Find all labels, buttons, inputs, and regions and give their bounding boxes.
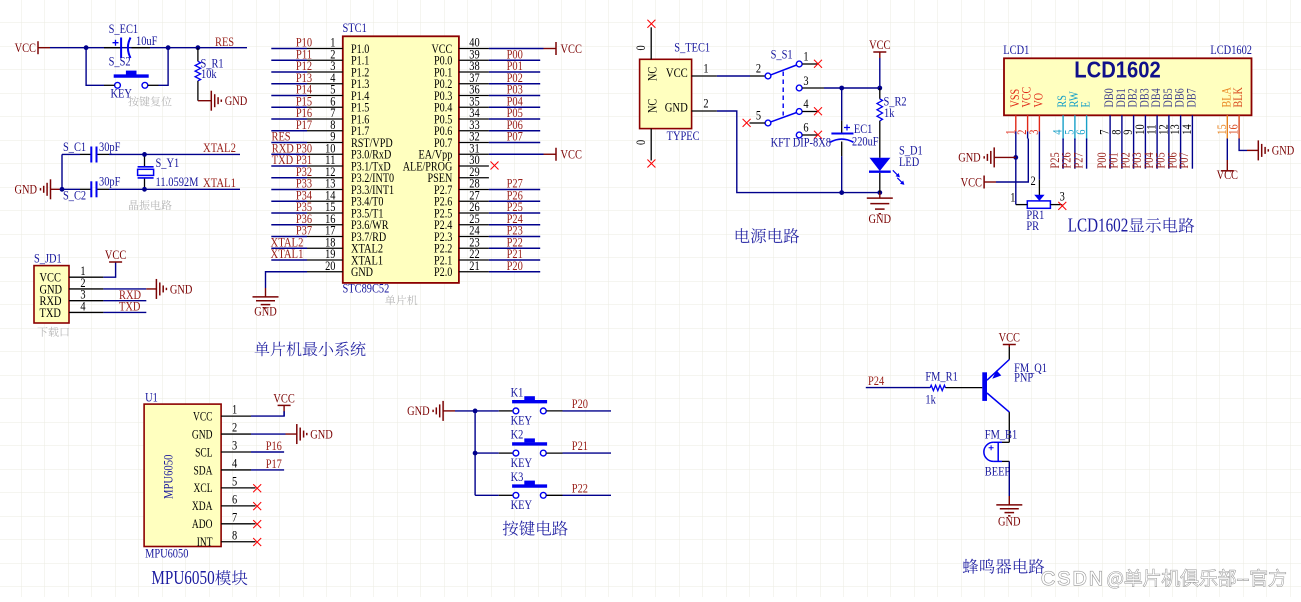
wire pin 7 [271, 118, 307, 120]
wire pin 1 [271, 48, 307, 50]
svg-text:GND: GND [1272, 143, 1295, 158]
STC1 pin 28 P2.7 [459, 189, 489, 191]
svg-text:GND: GND [665, 100, 688, 115]
STC1 pin 18 XTAL2 [307, 247, 343, 249]
wire pin 2 [271, 59, 307, 61]
wire pin 15 [271, 212, 307, 214]
svg-text:K1: K1 [511, 384, 524, 399]
STC1 pin 20 GND [307, 271, 343, 273]
wire P22 [563, 494, 612, 496]
wire buzzer to gnd [1008, 461, 1010, 496]
wire resistor to base [946, 387, 983, 389]
svg-text:5: 5 [232, 473, 237, 488]
S_S1 pin 6 [796, 132, 802, 138]
wire VCC col to port [996, 139, 1028, 183]
power port VCC (reset circuit) [37, 41, 39, 54]
ground GND (download) [156, 279, 166, 299]
key rail vertical [474, 411, 476, 495]
STC1 pin 38 P0.1 [459, 71, 489, 73]
wire pin 12 [271, 177, 307, 179]
svg-text:MPU6050: MPU6050 [151, 567, 214, 589]
svg-text:GND: GND [998, 513, 1021, 528]
wire pin 25 [489, 224, 540, 226]
svg-text:K3: K3 [511, 469, 524, 484]
wire pin 27 [489, 200, 540, 202]
STC1 pin 26 P2.5 [459, 212, 489, 214]
junction [877, 86, 882, 91]
LCD pin 5 stub [1074, 115, 1076, 140]
wire TEC1 pin1 to switch pin2 [717, 75, 750, 77]
wire bottom cap row [62, 188, 80, 190]
svg-text:STC89C52: STC89C52 [343, 281, 390, 296]
svg-text:30pF: 30pF [99, 139, 120, 154]
wire pin 18 [271, 247, 307, 249]
junction [166, 45, 171, 50]
LCD pin 7 stub [1109, 115, 1111, 138]
svg-text:NC: NC [645, 67, 660, 81]
junction [839, 190, 844, 195]
power port VCC (pin 31) [544, 153, 557, 155]
wire pin 34 [489, 118, 540, 120]
svg-text:21: 21 [469, 258, 479, 273]
svg-text:30pF: 30pF [99, 174, 120, 189]
svg-text:VCC: VCC [961, 174, 982, 189]
svg-text:KEY: KEY [511, 413, 533, 428]
svg-text:P21: P21 [572, 438, 588, 453]
S_S1 dashed gang link [782, 72, 784, 116]
LCD pin 11 stub [1156, 115, 1158, 138]
svg-text:TXD: TXD [40, 305, 61, 320]
svg-text:P20: P20 [572, 396, 588, 411]
power port VCC (MPU) [283, 405, 285, 411]
svg-text:4: 4 [80, 298, 86, 313]
svg-text:GND: GND [310, 426, 333, 441]
PR1 pin 3 [1050, 204, 1062, 206]
capacitor S_C2 30pF [80, 188, 91, 190]
capacitor S_C1 30pF [80, 153, 91, 155]
gray label 下载口 [37, 327, 68, 337]
svg-text:6: 6 [1073, 129, 1088, 135]
STC1 pin 27 P2.6 [459, 200, 489, 202]
svg-text:P07: P07 [1176, 152, 1191, 169]
svg-text:MPU6050: MPU6050 [145, 546, 188, 561]
LCD pin 12 stub [1168, 115, 1170, 138]
no connect X (U1 pin 5) [251, 487, 256, 489]
wire pin 5 [271, 95, 307, 97]
capacitor EC1 220uF [841, 88, 843, 121]
svg-text:MPU6050: MPU6050 [161, 455, 176, 499]
no connect X pin 30 [491, 162, 499, 170]
wire switch pin3 to vcc rail [824, 87, 880, 89]
STC1 pin 30 ALE/PROG [459, 165, 489, 167]
svg-text:1: 1 [1010, 190, 1015, 205]
LCD pin 4 stub [1062, 115, 1064, 140]
junction [142, 152, 147, 157]
svg-text:5: 5 [756, 107, 761, 122]
switch K2 KEY [475, 452, 499, 454]
svg-text:E: E [1078, 101, 1093, 107]
wire pin 16 [271, 224, 307, 226]
S_TEC1 pin NC top [650, 27, 652, 59]
svg-text:11.0592M: 11.0592M [156, 174, 199, 189]
PR1 pin 1 [1016, 204, 1028, 206]
svg-text:LCD1: LCD1 [1003, 42, 1029, 57]
junction [84, 45, 89, 50]
svg-text:XDA: XDA [192, 498, 213, 513]
wire U1 pin2 to GND [251, 433, 286, 435]
wire pin 22 [489, 259, 540, 261]
svg-text:10k: 10k [201, 66, 217, 81]
svg-text:1: 1 [803, 48, 808, 63]
junction [473, 409, 478, 414]
ground GND (LCD right) [1258, 140, 1268, 160]
svg-text:0: 0 [633, 140, 648, 145]
STC1 pin 17 P3.7/RD [307, 236, 343, 238]
svg-text:LCD1602: LCD1602 [1068, 215, 1129, 237]
capacitor S_EC1 plates [120, 38, 122, 59]
ground GND (MPU) [297, 424, 307, 444]
svg-text:2: 2 [1031, 173, 1036, 188]
power port VCC (LCD right, down) [1221, 170, 1234, 172]
svg-text:S_S2: S_S2 [109, 54, 131, 69]
LCD pin 16 stub [1238, 115, 1240, 139]
wire gnd to caps [51, 188, 63, 190]
S_S1 pin 3 [796, 85, 802, 91]
switch K1 KEY [475, 410, 499, 412]
LCD pin 3 stub [1038, 115, 1040, 131]
svg-text:BEEP: BEEP [985, 464, 1010, 479]
power port VCC (power circuit) [879, 52, 881, 58]
ground GND (power circuit) [867, 198, 893, 214]
wire pin 3 [271, 71, 307, 73]
STC1 pin 23 P2.2 [459, 247, 489, 249]
junction [142, 187, 147, 192]
svg-text:VCC: VCC [273, 391, 294, 406]
svg-text:P17: P17 [266, 456, 283, 471]
wire pin 35 [489, 106, 540, 108]
svg-text:S_Y1: S_Y1 [156, 155, 180, 170]
wire pin 10 [271, 153, 307, 155]
ground GND (LCD left) [994, 156, 1016, 158]
wire right branch down to key [159, 48, 169, 86]
STC1 pin 25 P2.4 [459, 224, 489, 226]
wire VO col to PR1 wiper [1038, 139, 1040, 180]
S_TEC1 pin 2 [692, 110, 717, 112]
svg-text:KEY: KEY [111, 85, 133, 100]
wire pin2 to GND [103, 288, 146, 290]
STC1 pin 29 PSEN [459, 177, 489, 179]
S_TEC1 pin 1 [692, 75, 717, 77]
svg-text:6: 6 [803, 119, 809, 134]
STC1 pin 35 P0.4 [459, 106, 489, 108]
module U1 MPU6050 body [144, 404, 221, 546]
no connect X (U1 pin 8) [251, 541, 256, 543]
svg-text:14: 14 [1179, 124, 1194, 135]
wire pin 8 [271, 130, 307, 132]
wire U1 pin4 [251, 469, 284, 471]
STC1 pin 22 P2.1 [459, 259, 489, 261]
svg-text:VCC: VCC [561, 147, 582, 162]
svg-text:S_TEC1: S_TEC1 [674, 40, 710, 55]
svg-text:TXD: TXD [272, 152, 293, 167]
svg-text:VCC: VCC [105, 247, 126, 262]
LED S_D1 [879, 121, 881, 158]
STC1 pin 32 P0.7 [459, 142, 489, 144]
connector S_JD1 [34, 266, 69, 323]
svg-text:LCD1602: LCD1602 [1210, 42, 1252, 57]
wire top cap row [62, 153, 80, 155]
svg-text:TYPEC: TYPEC [667, 128, 700, 143]
gray label 按键复位 [128, 96, 171, 106]
wire pin 14 [271, 200, 307, 202]
S_S1 pin 1 [796, 61, 802, 67]
svg-text:GND: GND [869, 211, 892, 226]
title 蜂鸣器电路 [963, 559, 1044, 574]
no connect X (S_S1 pin5) [743, 119, 751, 127]
svg-text:KEY: KEY [511, 497, 533, 512]
STC1 pin 15 P3.5/T1 [307, 212, 343, 214]
svg-text:U1: U1 [145, 390, 158, 405]
svg-text:3: 3 [1060, 189, 1065, 204]
potentiometer PR1 [1027, 201, 1050, 208]
resistor S_R1 [197, 48, 199, 62]
wire pin 19 [271, 259, 307, 261]
LCD pin 15 stub [1226, 115, 1228, 139]
STC1 pin 21 P2.0 [459, 271, 489, 273]
power port VCC (LCD left) [983, 176, 985, 189]
power port VCC (download) [115, 261, 117, 263]
wire TEC1 pin2 to gnd rail [717, 111, 880, 193]
no connect X (U1 pin 6) [251, 505, 256, 507]
wire BLA col to VCC [1226, 139, 1228, 161]
LCD pin 2 stub [1027, 115, 1029, 131]
wire pin 21 [489, 271, 540, 273]
STC1 pin 6 P1.5 [307, 106, 343, 108]
svg-text:GND: GND [958, 150, 981, 165]
svg-text:NC: NC [645, 99, 660, 113]
no connect X (S_S1 pin4) [814, 107, 822, 115]
svg-text:GND: GND [407, 403, 430, 418]
LCD pin 8 stub [1121, 115, 1123, 138]
wire P20 [563, 410, 612, 412]
power port VCC (pin 40) [544, 48, 557, 50]
junction [839, 86, 844, 91]
svg-text:VCC: VCC [1217, 167, 1238, 182]
wire U1 pin1 to VCC [251, 411, 284, 416]
MCU U=STC1 body [343, 36, 459, 283]
svg-text:P07: P07 [507, 129, 524, 144]
capacitor S_EC1 10uF (pins) [104, 47, 121, 49]
STC1 pin 13 P3.3/INT1 [307, 189, 343, 191]
STC1 pin 7 P1.6 [307, 118, 343, 120]
wire pin 23 [489, 247, 540, 249]
wire P24 to resistor [866, 387, 930, 389]
S_S1 pin 5 [765, 120, 771, 126]
svg-text:220uF: 220uF [852, 133, 879, 148]
buzzer FM_B1 BEEP [984, 442, 998, 461]
gray label 单片机 [385, 295, 417, 305]
STC1 pin 2 P1.1 [307, 59, 343, 61]
ground GND (reset) [211, 91, 221, 111]
wire gnd to key rail [455, 410, 475, 412]
no connect X (PR1 pin3) [1058, 202, 1066, 210]
svg-text:S_C1: S_C1 [63, 139, 86, 154]
svg-text:INT: INT [197, 534, 213, 549]
STC1 pin 36 P0.3 [459, 95, 489, 97]
switch K3 KEY [475, 494, 499, 496]
svg-text:S_EC1: S_EC1 [109, 21, 139, 36]
resistor FM_R1 1k [930, 385, 945, 390]
svg-text:GND: GND [254, 303, 277, 318]
svg-text:BLK: BLK [1230, 87, 1245, 108]
connector S_TEC1 TYPEC body [640, 59, 692, 128]
junction [196, 45, 201, 50]
svg-text:P27: P27 [1070, 152, 1085, 169]
STC1 pin 19 XTAL1 [307, 259, 343, 261]
svg-text:XTAL1: XTAL1 [271, 246, 304, 261]
svg-text:VCC: VCC [666, 65, 688, 80]
svg-text:KFT DIP-8X8: KFT DIP-8X8 [771, 135, 831, 150]
svg-text:LCD1602: LCD1602 [1074, 57, 1161, 83]
STC1 pin 34 P0.5 [459, 118, 489, 120]
svg-text:S_JD1: S_JD1 [34, 251, 62, 266]
svg-text:ADO: ADO [192, 516, 213, 531]
PNP arrow [992, 370, 1001, 379]
svg-text:3: 3 [232, 438, 237, 453]
STC1 pin 3 P1.2 [307, 71, 343, 73]
power port VCC (buzzer) [1008, 345, 1010, 348]
S_S1 pin 2 [750, 75, 765, 77]
svg-text:GND: GND [170, 281, 193, 296]
svg-text:20: 20 [325, 258, 335, 273]
svg-text:3: 3 [1026, 130, 1041, 135]
svg-text:8: 8 [232, 527, 237, 542]
wire pin 9 [271, 142, 307, 144]
svg-text:P17: P17 [296, 117, 313, 132]
ground GND (MCU) [253, 297, 279, 308]
svg-text:1: 1 [232, 402, 237, 417]
wire VCC to RES net [50, 47, 247, 49]
wire pin 20 GND [266, 272, 308, 288]
wire pin 31 to VCC [489, 153, 544, 155]
STC1 pin 39 P0.0 [459, 59, 489, 61]
svg-text:KEY: KEY [511, 455, 533, 470]
svg-text:FM_B1: FM_B1 [985, 427, 1017, 442]
svg-text:DB7: DB7 [1183, 88, 1198, 108]
wire pin 37 [489, 83, 540, 85]
svg-text:XTAL1: XTAL1 [203, 175, 236, 190]
svg-text:SCL: SCL [195, 444, 212, 459]
svg-text:P2.0: P2.0 [434, 264, 452, 279]
wire collector down [1008, 412, 1010, 442]
junction [877, 190, 882, 195]
wire gnd stem [879, 193, 881, 199]
LCD pin 9 stub [1133, 115, 1135, 138]
svg-text:GND: GND [15, 182, 38, 197]
wire pin1 to VCC [103, 262, 115, 277]
ground GND (buzzer) [996, 505, 1022, 516]
title 按键电路 [503, 521, 568, 536]
svg-text:S_S1: S_S1 [771, 47, 793, 62]
LCD pin 10 stub [1144, 115, 1146, 138]
wire pin 26 [489, 212, 540, 214]
title 单片机最小系统 [255, 342, 366, 357]
LCD pin 14 stub [1191, 115, 1193, 138]
PR1 wiper arrow [1034, 195, 1044, 201]
STC1 pin 24 P2.3 [459, 236, 489, 238]
svg-text:10uF: 10uF [136, 33, 157, 48]
svg-text:GND: GND [192, 426, 213, 441]
svg-text:2: 2 [703, 96, 708, 111]
S_S1 lever 2-1 [771, 65, 797, 75]
svg-text:LED: LED [899, 154, 919, 169]
wire left branch down to key [86, 48, 104, 86]
svg-text:7: 7 [232, 509, 238, 524]
switch S_S2 KEY [114, 74, 149, 77]
svg-text:PR: PR [1026, 218, 1039, 233]
svg-text:VCC: VCC [869, 37, 890, 52]
junction [473, 451, 478, 456]
STC1 pin 40 VCC [459, 48, 489, 50]
wire BLK col to GND [1239, 139, 1247, 151]
svg-text:VO: VO [1030, 93, 1045, 108]
svg-text:P20: P20 [507, 258, 523, 273]
svg-text:RES: RES [215, 34, 234, 49]
STC1 pin 1 P1.0 [307, 48, 343, 50]
svg-text:GND: GND [225, 93, 248, 108]
svg-text:XCL: XCL [194, 480, 213, 495]
wire pin 4 [271, 83, 307, 85]
LCD pin 1 stub [1015, 115, 1017, 131]
S_TEC1 pin NC bottom [650, 129, 652, 161]
wire pin 28 [489, 189, 540, 191]
S_S1 lever 5-4 [771, 113, 797, 122]
wire pin 17 [271, 236, 307, 238]
STC1 pin 12 P3.2/INT0 [307, 177, 343, 179]
svg-text:3: 3 [803, 73, 808, 88]
no connect X (S_S1 pin6) [814, 131, 822, 139]
svg-text:0: 0 [633, 45, 648, 50]
LED light arrows [893, 170, 902, 182]
svg-text:CSDN: CSDN [1041, 568, 1103, 590]
svg-text:FM_R1: FM_R1 [925, 369, 957, 384]
wires LCD data/control columns [1062, 139, 1064, 169]
wire pin 32 [489, 142, 540, 144]
wire pin4 TXD [103, 311, 146, 313]
wire pin 36 [489, 95, 540, 97]
LCD pin 6 stub [1086, 115, 1088, 140]
STC1 pin 33 P0.6 [459, 130, 489, 132]
svg-text:SDA: SDA [194, 462, 213, 477]
no connect X (S_S1 pin1) [814, 60, 822, 68]
resistor S_R2 [879, 88, 881, 99]
gray label 晶振电路 [129, 200, 172, 210]
wire resistor to gnd [197, 81, 199, 101]
svg-text:4: 4 [803, 96, 809, 111]
svg-text:XTAL2: XTAL2 [203, 140, 236, 155]
svg-text:VCC: VCC [561, 41, 582, 56]
svg-text:S_C2: S_C2 [63, 188, 86, 203]
svg-text:VCC: VCC [15, 40, 36, 55]
STC1 pin 14 P3.4/T0 [307, 200, 343, 202]
S_S1 pin 4 [796, 109, 802, 115]
ground GND (keys) [433, 401, 443, 421]
svg-text:GND: GND [351, 264, 373, 279]
wire pin 38 [489, 71, 540, 73]
LCD pin 13 stub [1180, 115, 1182, 138]
wire pin 33 [489, 130, 540, 132]
STC1 pin 10 P3.0/RxD [307, 153, 343, 155]
